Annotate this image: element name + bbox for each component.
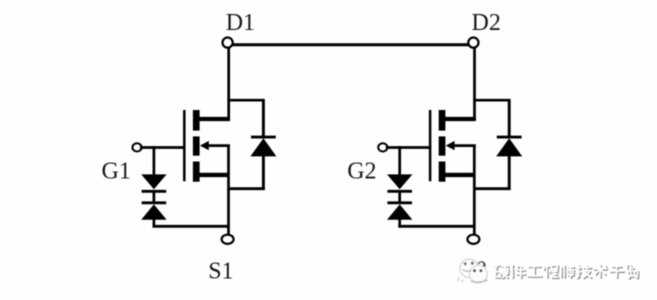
diode triangle: [250, 138, 276, 156]
node S1 terminal: [222, 235, 234, 244]
wire G2 gate lead: [386, 146, 432, 149]
Z2 mid link: [398, 191, 401, 203]
watermark text highlight layer: [494, 264, 638, 278]
wire Q2 drain vertical: [473, 47, 476, 121]
mosfet Q1: [184, 110, 230, 182]
Q1 drain stub: [196, 117, 230, 121]
Q2 channel body segment: [439, 136, 446, 155]
svg-text:D1: D1: [226, 10, 255, 36]
Z2 bottom lead: [398, 219, 401, 228]
wire Q2 body diode bottom branch: [473, 187, 510, 190]
Q1 source stub: [196, 173, 228, 177]
wire top net D1-D2: [228, 43, 474, 46]
wire Q1 body diode bottom branch: [227, 187, 264, 190]
mosfet Q2: [430, 110, 476, 182]
Z2 upper diode cathode bar: [387, 190, 412, 193]
Q2 drain stub: [442, 117, 476, 121]
watermark logo: [451, 255, 492, 287]
label S1: [208, 259, 233, 285]
Q1 channel body segment: [193, 136, 200, 155]
diode cathode lead: [508, 99, 511, 138]
node G2 terminal: [378, 143, 387, 151]
body diode of Q1: [250, 99, 276, 190]
Z2 top lead: [398, 146, 401, 175]
Z1 mid link: [153, 191, 156, 203]
diode triangle: [496, 138, 522, 156]
wire Z1 return to source: [153, 225, 229, 228]
Q1 body stub: [206, 144, 230, 147]
watermark text shadow layer: [495, 265, 639, 279]
Q2 channel drain segment: [439, 110, 446, 131]
Q1 channel source segment: [193, 162, 200, 182]
label D2: [472, 10, 501, 36]
svg-text:G1: G1: [102, 159, 131, 185]
Q2 channel source segment: [439, 162, 446, 182]
Z1 upper diode cathode bar: [142, 190, 167, 193]
Z1 lower diode triangle (anode down): [141, 204, 166, 219]
Z2 lower diode cathode bar: [387, 201, 412, 204]
label G2: [347, 159, 376, 185]
svg-text:G2: G2: [347, 159, 376, 185]
node D2 terminal: [468, 38, 478, 48]
Q2 body arrow: [446, 141, 455, 150]
wire G1 gate lead: [140, 146, 186, 149]
gate protection diode pair Z1: [141, 146, 166, 228]
node D1 terminal: [223, 38, 233, 48]
Q1 channel drain segment: [193, 110, 200, 131]
svg-text:S1: S1: [208, 259, 233, 285]
label D1: [226, 10, 255, 36]
wire Q1 drain branch to body diode: [227, 99, 263, 102]
gate protection diode pair Z2: [387, 146, 412, 228]
Q2 source stub: [442, 173, 474, 177]
svg-text:D2: D2: [472, 10, 501, 36]
Q2 gate poly line: [429, 110, 432, 181]
Z2 lower diode triangle (anode down): [387, 204, 412, 219]
wire Q2 drain branch to body diode: [473, 99, 509, 102]
diode cathode bar: [497, 136, 522, 139]
label S2: [454, 259, 479, 285]
node G1 terminal: [132, 143, 141, 151]
Z2 upper diode triangle (anode up): [387, 174, 412, 189]
wire Z2 return to source: [398, 225, 474, 228]
body diode of Q2: [496, 99, 522, 190]
Z1 top lead: [153, 146, 156, 175]
Z1 bottom lead: [153, 219, 156, 228]
wire Q2 body-source vertical: [473, 146, 476, 236]
diode cathode bar: [251, 136, 276, 139]
Q1 body arrow: [200, 141, 209, 150]
wire Q1 body-source vertical: [227, 146, 230, 236]
diode anode lead: [508, 155, 511, 190]
label G1: [102, 159, 131, 185]
Z1 upper diode triangle (anode up): [141, 174, 166, 189]
diode cathode lead: [262, 99, 265, 138]
wire Q1 drain vertical: [227, 47, 230, 121]
Z1 lower diode cathode bar: [142, 201, 167, 204]
node S2 terminal: [467, 235, 479, 244]
diode anode lead: [262, 155, 265, 190]
Q1 gate poly line: [183, 110, 186, 181]
Q2 body stub: [452, 144, 476, 147]
